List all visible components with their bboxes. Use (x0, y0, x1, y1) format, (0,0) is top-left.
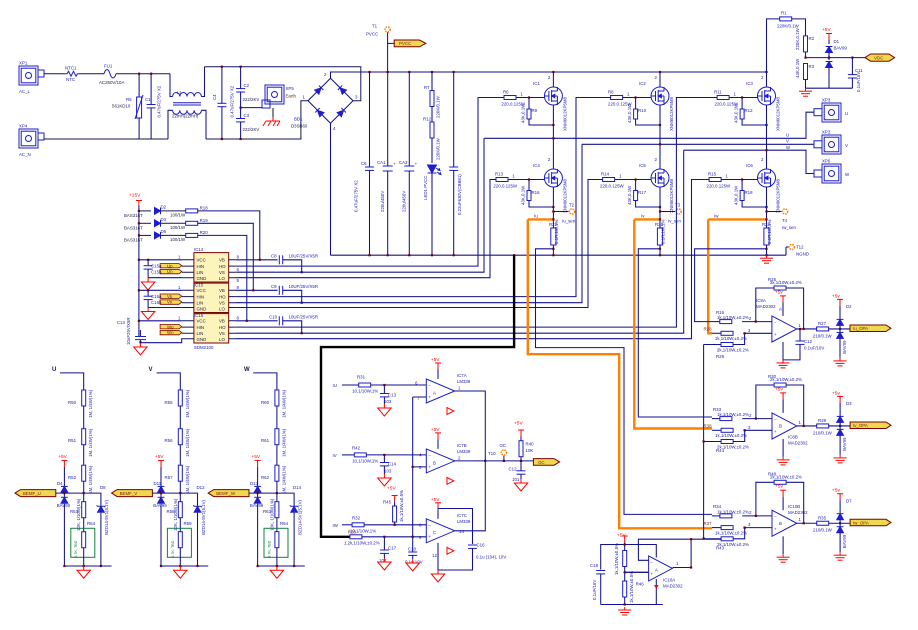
svg-text:+: + (393, 162, 396, 167)
junction (221, 66, 223, 68)
wire phase W (684, 145, 814, 174)
connector XP1 (19, 61, 44, 95)
svg-text:Iw_OPA: Iw_OPA (853, 521, 869, 526)
junction (552, 248, 554, 250)
electrolytic CA2 220u/450V (399, 72, 418, 255)
svg-text:R43: R43 (716, 545, 725, 550)
svg-text:R51: R51 (68, 438, 77, 443)
junction (150, 73, 152, 75)
wire comparator plus chain (412, 397, 427, 538)
svg-text:IC10B: IC10B (788, 504, 800, 509)
wire VDC gnd rail (806, 87, 853, 89)
svg-text:T1: T1 (372, 24, 378, 29)
op-amp IC10B MAD2302 (704, 471, 892, 562)
svg-text:12: 12 (432, 553, 437, 558)
svg-text:222/2KV: 222/2KV (243, 127, 260, 132)
svg-text:10UF/25V/X5R: 10UF/25V/X5R (289, 284, 319, 289)
svg-text:0.1u (104), 10V: 0.1u (104), 10V (476, 555, 506, 560)
BEMF divider V: R55 R56 R57 R58 R59 D11 D12 (138, 373, 208, 578)
test point T12 NGND (786, 244, 809, 256)
LED1 PVCC (423, 165, 441, 255)
svg-text:IC10A: IC10A (663, 578, 675, 583)
svg-text:B: B (779, 424, 782, 429)
svg-text:VCC: VCC (197, 258, 206, 263)
svg-text:R17: R17 (638, 190, 647, 195)
svg-text:0.1uF/16V: 0.1uF/16V (856, 72, 861, 92)
svg-text:+15V: +15V (129, 193, 141, 199)
wire IC10A power (624, 543, 659, 604)
test point T4 Iw_sen (782, 209, 796, 230)
svg-text:OC: OC (538, 460, 545, 465)
svg-text:MAD2302: MAD2302 (756, 304, 776, 309)
svg-text:+5V: +5V (822, 27, 831, 33)
resistor R40 10K pullup (514, 421, 534, 461)
net tag Un (151, 269, 182, 274)
ground (378, 404, 391, 416)
wire VCC2 (139, 289, 182, 291)
svg-text:C2: C2 (244, 83, 250, 88)
svg-text:IC7C: IC7C (457, 513, 467, 518)
svg-text:HO: HO (219, 325, 226, 330)
junction (765, 248, 767, 250)
capacitor C6 0.47uF/275V X2 (354, 72, 375, 255)
power +15V (129, 193, 142, 208)
svg-text:CA1: CA1 (377, 160, 386, 165)
svg-text:R55: R55 (165, 400, 174, 405)
svg-text:R2: R2 (809, 36, 815, 41)
svg-text:LM339: LM339 (457, 379, 471, 384)
junction (138, 210, 140, 212)
svg-text:XP1: XP1 (19, 61, 28, 66)
bootstrap capacitor C10 10uF/25V (235, 315, 318, 335)
wire kelvin Iv return (638, 249, 712, 417)
svg-text:R22: R22 (549, 222, 558, 227)
test point T3 Iv_sen (668, 203, 681, 224)
svg-text:D5: D5 (161, 229, 167, 234)
varistor R5 (112, 74, 143, 139)
svg-text:BAS316T: BAS316T (124, 213, 143, 218)
wire HO2 (235, 98, 610, 297)
svg-text:NTC1: NTC1 (65, 66, 77, 71)
svg-text:IU: IU (333, 383, 337, 388)
svg-text:1k,1/10W,±0.5%: 1k,1/10W,±0.5% (614, 543, 619, 575)
svg-text:LIN: LIN (197, 270, 204, 275)
wire LO2 (235, 180, 602, 308)
svg-text:B: B (433, 460, 436, 465)
wire HO3 (235, 98, 717, 328)
ground (134, 343, 147, 355)
wire VS3 (235, 150, 683, 333)
svg-text:IC1: IC1 (533, 81, 540, 86)
comparator IC7C LM339 (419, 497, 471, 555)
svg-text:220u/450V: 220u/450V (402, 191, 407, 212)
wire bridge minus down (330, 123, 332, 255)
wire upper AC rail to bridge (205, 67, 361, 101)
junction (240, 66, 242, 68)
svg-text:10K: 10K (526, 448, 534, 453)
svg-text:Iv_sen: Iv_sen (668, 219, 681, 224)
svg-text:BEMF_W: BEMF_W (216, 491, 236, 496)
test point T2 Iu_sen (562, 203, 576, 224)
electrolytic CA1 220u/450V (377, 72, 396, 255)
svg-text:A: A (779, 307, 782, 312)
svg-text:R18: R18 (200, 206, 209, 211)
svg-text:100/1W: 100/1W (170, 237, 186, 242)
svg-text:R8: R8 (608, 90, 614, 95)
svg-text:VB: VB (219, 319, 225, 324)
svg-text:XP5: XP5 (286, 86, 295, 91)
net flag OC (533, 459, 559, 466)
svg-text:C10: C10 (408, 547, 417, 552)
svg-text:IC8A: IC8A (756, 298, 766, 303)
svg-text:100/1W: 100/1W (170, 225, 186, 230)
wire orange Iu sense (528, 214, 712, 529)
svg-text:IC5: IC5 (639, 163, 646, 168)
svg-text:R14: R14 (601, 172, 610, 177)
capacitor C14 103 (380, 454, 397, 474)
svg-text:Iw_sen: Iw_sen (782, 225, 796, 230)
wire orange Iv sense (634, 214, 712, 429)
junction (659, 248, 661, 250)
ground (141, 308, 154, 320)
designators half-bridge U (495, 81, 558, 227)
svg-text:R13: R13 (495, 172, 504, 177)
IC15 driver box (178, 283, 240, 313)
svg-text:22mH(22mH): 22mH(22mH) (172, 114, 199, 119)
svg-text:D2: D2 (846, 304, 852, 309)
svg-text:R31: R31 (357, 375, 366, 380)
svg-text:C16a: C16a (151, 294, 162, 299)
wire bootstrap feed 3 (198, 235, 247, 320)
svg-text:D13: D13 (250, 481, 259, 486)
svg-text:VS: VS (219, 270, 225, 275)
svg-text:R16: R16 (532, 190, 541, 195)
power ground (799, 88, 812, 96)
junction bus col3 (765, 71, 767, 73)
connector XP3 U (814, 98, 848, 123)
svg-text:R38: R38 (704, 424, 713, 429)
designators half-bridge V (601, 81, 664, 227)
svg-text:VCC: VCC (197, 319, 206, 324)
capacitor C18 (590, 545, 625, 605)
junction negative rail (368, 254, 370, 256)
capacitor C5 0.22uF/630V (449, 72, 462, 255)
junction orange taps (552, 218, 554, 220)
svg-text:PVCC: PVCC (399, 41, 411, 46)
svg-text:C14: C14 (388, 462, 397, 467)
ground (406, 559, 419, 571)
connector XP5 Earth (262, 85, 297, 108)
diode D5 BAS316T (124, 229, 167, 242)
svg-text:VS: VS (219, 301, 225, 306)
svg-text:0.1uF/10V: 0.1uF/10V (804, 346, 824, 351)
svg-text:R45: R45 (383, 500, 392, 505)
svg-text:LED1 PVCC: LED1 PVCC (423, 176, 428, 200)
wire bootstrap feed 1 (198, 211, 260, 260)
wire orange Iw sense (708, 214, 766, 334)
diode D2 BAS316T (124, 205, 167, 218)
svg-text:VB: VB (219, 288, 225, 293)
svg-text:101: 101 (512, 477, 520, 482)
svg-text:R60: R60 (261, 400, 270, 405)
svg-text:C1: C1 (145, 97, 151, 102)
svg-text:IW: IW (333, 523, 339, 528)
svg-text:R57: R57 (165, 475, 174, 480)
svg-text:Iu_sen: Iu_sen (562, 219, 576, 224)
svg-text:R18: R18 (745, 190, 754, 195)
test point T10 OC (488, 443, 507, 461)
svg-text:C11: C11 (855, 68, 863, 73)
svg-text:R59: R59 (184, 521, 193, 526)
resistor R20 100/1W (161, 230, 209, 242)
capacitor C3 222/2KV (236, 107, 259, 141)
bootstrap capacitor C8 10uF/25V (235, 254, 318, 274)
svg-text:Up: Up (167, 263, 173, 268)
svg-text:R20: R20 (200, 230, 209, 235)
net tag Wn (160, 330, 182, 335)
wire IC10A plus input (625, 571, 649, 573)
wire kelvin Iu return (536, 249, 713, 515)
wire IC10A gnd rail (601, 604, 663, 606)
connector XP2 V (814, 130, 848, 155)
svg-text:C3: C3 (244, 113, 250, 118)
svg-text:D3SB60: D3SB60 (291, 124, 308, 129)
ground (431, 570, 444, 582)
wire GND2 (148, 307, 182, 309)
junction ref mid (624, 567, 649, 582)
svg-text:IC14: IC14 (194, 247, 204, 252)
svg-text:A: A (655, 568, 658, 573)
svg-text:R19: R19 (200, 218, 209, 223)
svg-text:220K,0.1W: 220K,0.1W (795, 27, 800, 50)
svg-text:MAD2302: MAD2302 (788, 441, 808, 446)
bridge rectifier BD1 D3SB60 (291, 72, 358, 131)
svg-text:D3: D3 (846, 401, 852, 406)
junction (431, 71, 433, 73)
svg-text:10uF25V/X5R: 10uF25V/X5R (126, 317, 131, 345)
wire VS1 (235, 138, 484, 272)
svg-text:LM339: LM339 (457, 449, 471, 454)
svg-text:T3: T3 (675, 203, 681, 208)
resistor R1 220K/0.1W (767, 11, 806, 73)
svg-text:W: W (244, 367, 250, 373)
svg-text:U: U (786, 133, 789, 138)
svg-text:NGND: NGND (796, 252, 809, 257)
resistor R45 threshold pullup (383, 486, 404, 526)
junction (624, 603, 626, 605)
wire GND1 (148, 277, 182, 279)
svg-text:BD1: BD1 (294, 117, 303, 122)
wire VDC node (804, 57, 865, 59)
svg-text:A: A (433, 391, 436, 396)
capacitor bypass IC15 (144, 289, 153, 307)
wire bootstrap feed 2 (198, 223, 254, 290)
svg-text:C16b: C16b (151, 300, 162, 305)
resistor R32 10R (342, 515, 426, 533)
wire FU1 to bridge AC rail (116, 73, 170, 75)
svg-text:HO: HO (219, 295, 226, 300)
svg-text:V: V (845, 143, 848, 148)
svg-text:XP3: XP3 (822, 98, 831, 103)
resistor R3 43K/0.1W (795, 58, 815, 88)
svg-text:R35: R35 (818, 515, 827, 520)
connector XP4 (19, 124, 44, 158)
wire bottom AC rail to bridge (206, 101, 308, 139)
svg-text:0.47uF/275V X2: 0.47uF/275V X2 (230, 85, 235, 117)
svg-text:1.2k,1/10W,±0.2%: 1.2k,1/10W,±0.2% (344, 541, 380, 546)
svg-text:R10: R10 (638, 108, 647, 113)
wire ref divider top (624, 543, 626, 551)
svg-text:R37: R37 (704, 521, 713, 526)
svg-text:BAS316T: BAS316T (124, 238, 143, 243)
svg-text:220K/0.1W: 220K/0.1W (777, 24, 800, 29)
wire bottom AC rail (44, 138, 168, 140)
svg-text:D8: D8 (100, 485, 106, 490)
svg-text:GND: GND (197, 307, 207, 312)
capacitor bypass IC14 (144, 259, 153, 278)
capacitor C13b 103 (380, 384, 397, 404)
op-amp IC8B MAD2302 (704, 374, 892, 465)
svg-text:R24: R24 (762, 222, 771, 227)
capacitor C10b 0.1u (405, 537, 423, 565)
svg-text:HIN: HIN (197, 295, 205, 300)
net flag BEMF_U (15, 490, 56, 497)
wire negative rail (331, 254, 787, 256)
half-bridge U: transistors IC1/IC4 (493, 72, 568, 255)
svg-text:C4: C4 (212, 94, 217, 100)
wire NTC1 to FU1 (80, 73, 105, 75)
wire IC10A output to reference (673, 538, 722, 569)
svg-text:R44: R44 (716, 448, 725, 453)
wire GND3 (140, 339, 182, 343)
svg-text:R48: R48 (768, 471, 777, 476)
svg-text:IC6: IC6 (746, 163, 753, 168)
svg-text:XP4: XP4 (19, 124, 28, 129)
svg-text:Iv_OPA: Iv_OPA (853, 423, 868, 428)
svg-text:V: V (786, 139, 789, 144)
ground (378, 474, 391, 486)
svg-text:R61: R61 (261, 438, 270, 443)
svg-text:XP2: XP2 (822, 130, 831, 135)
capacitor C2 222/2KV (236, 67, 259, 108)
svg-text:T12: T12 (796, 245, 804, 250)
svg-text:LIN: LIN (197, 331, 204, 336)
capacitor C17 103 (379, 536, 397, 563)
svg-text:R54: R54 (87, 521, 96, 526)
svg-text:AC_L: AC_L (19, 89, 31, 94)
svg-text:SDM2100: SDM2100 (194, 345, 214, 350)
resistor R41 1k (614, 543, 627, 575)
svg-text:R46: R46 (636, 582, 645, 587)
svg-text:GND: GND (197, 337, 207, 342)
svg-text:R39: R39 (818, 418, 827, 423)
svg-text:CA2: CA2 (399, 160, 408, 165)
svg-text:BEMF_U: BEMF_U (23, 491, 41, 496)
svg-text:C18: C18 (590, 563, 599, 568)
power +5V (822, 27, 832, 40)
svg-text:103: 103 (384, 399, 392, 404)
svg-text:IV: IV (333, 453, 337, 458)
svg-text:C6: C6 (361, 161, 367, 166)
svg-text:R53: R53 (70, 509, 79, 514)
svg-text:IC16: IC16 (194, 313, 204, 318)
svg-text:LO: LO (219, 276, 225, 281)
svg-text:B: B (779, 521, 782, 526)
svg-text:0.47uF/275V X2: 0.47uF/275V X2 (157, 85, 162, 117)
svg-text:C13: C13 (117, 320, 126, 325)
wire Y-cap midpoint to XP5 (241, 107, 262, 109)
svg-text:BAS316T: BAS316T (124, 225, 143, 230)
bootstrap capacitor C9 10uF/25V (235, 284, 318, 304)
svg-text:VB: VB (219, 258, 225, 263)
svg-text:R5: R5 (126, 97, 132, 102)
svg-text:U: U (845, 111, 848, 116)
svg-text:10UF/25V/X5R: 10UF/25V/X5R (289, 254, 319, 259)
svg-text:NTC: NTC (66, 77, 75, 82)
svg-text:C9: C9 (271, 284, 277, 289)
svg-text:R12: R12 (423, 117, 432, 122)
decoupling capacitor C16 (432, 509, 506, 571)
junction (408, 71, 410, 73)
svg-text:FU1: FU1 (104, 64, 113, 69)
svg-text:HO: HO (219, 264, 226, 269)
op-amp IC8A MAD2302 (704, 277, 891, 368)
capacitor C11 (848, 58, 863, 92)
op-amp IC10A MAD2302 (649, 556, 683, 589)
svg-text:U: U (52, 367, 56, 373)
svg-text:L1: L1 (177, 90, 182, 95)
svg-text:R1: R1 (781, 11, 787, 16)
svg-text:D4: D4 (57, 481, 63, 486)
wire LO3 (235, 180, 709, 339)
svg-text:R29: R29 (716, 354, 725, 359)
svg-text:R62: R62 (261, 475, 270, 480)
svg-text:R3: R3 (809, 64, 815, 69)
svg-text:XP6: XP6 (822, 159, 831, 164)
svg-text:R32: R32 (352, 515, 361, 520)
svg-text:C8: C8 (271, 254, 277, 259)
common mode choke L1 (168, 67, 206, 139)
svg-text:0.1u,10V: 0.1u,10V (405, 560, 423, 565)
svg-text:R7: R7 (424, 85, 430, 90)
wire VCC1 (139, 259, 182, 261)
svg-text:IC7A: IC7A (457, 373, 467, 378)
svg-text:VDC: VDC (874, 56, 883, 61)
junction (387, 71, 389, 73)
svg-text:220K/0.1W: 220K/0.1W (436, 137, 441, 160)
wire LO1 (235, 180, 496, 278)
wire VS2 (235, 144, 582, 302)
svg-text:+5V: +5V (514, 421, 523, 427)
net tag Up (151, 263, 182, 268)
svg-text:IC2: IC2 (639, 81, 646, 86)
power +5V (617, 533, 628, 543)
svg-text:BAV99: BAV99 (834, 46, 848, 51)
svg-text:Vn: Vn (167, 300, 173, 305)
svg-text:D3: D3 (161, 217, 167, 222)
svg-text:Un: Un (167, 269, 173, 274)
junction bus col1 (552, 71, 554, 73)
svg-text:V: V (149, 367, 153, 373)
svg-text:R28: R28 (348, 529, 357, 534)
svg-text:C: C (433, 530, 436, 535)
resistor R2 220K/0.1W (795, 27, 815, 57)
net flag BEMF_V (112, 490, 153, 497)
svg-text:220K/0.1W: 220K/0.1W (436, 95, 441, 118)
svg-text:0.1uF/16V: 0.1uF/16V (592, 580, 597, 600)
svg-text:AC250V/10A: AC250V/10A (99, 80, 124, 85)
svg-text:R33: R33 (713, 407, 722, 412)
